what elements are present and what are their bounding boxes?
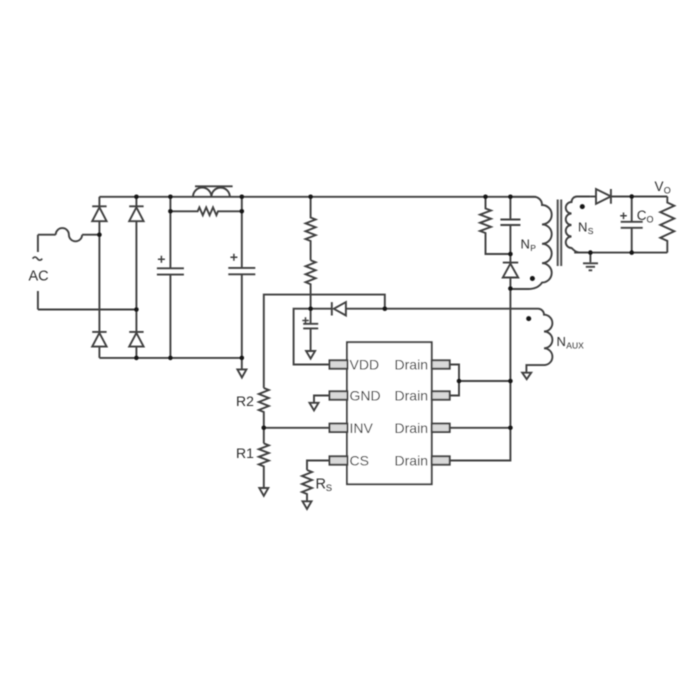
node INV divider [262,426,267,431]
node bottom bus junctions [134,356,139,361]
svg-text:V: V [655,179,664,194]
pin VDD box [330,360,348,368]
node top bus junctions [134,195,139,200]
ground (Naux arrow) [522,373,531,380]
IC U1 body [347,342,432,484]
svg-text:O: O [664,186,671,196]
wire drain vertical [450,289,511,461]
svg-text:O: O [647,215,654,225]
wire bridge right column [135,197,137,358]
node secondary ground [588,250,593,255]
capacitor C-vdd [303,309,318,351]
output diode [596,189,611,204]
wire Ns top to output diode [590,196,596,198]
label AC [33,257,43,260]
svg-text:VDD: VDD [350,357,380,373]
wire CS to Rs [307,461,330,471]
svg-text:Drain: Drain [395,453,428,469]
node drain join [457,379,462,384]
plus C2 [230,254,237,261]
svg-text:R: R [316,477,326,493]
wire VDD pin loop [294,309,330,365]
wire diode anode to node A [346,308,385,310]
svg-text:N: N [521,237,530,252]
pin Drain4 box [432,456,450,464]
svg-text:N: N [557,334,566,349]
svg-text:CS: CS [350,453,369,469]
pin Drain3 box [432,424,450,432]
node phase dot Ns [580,204,585,209]
node damping resistor ends [168,209,173,214]
wire INV [264,427,330,429]
capacitor Co [621,197,643,253]
wire bridge left column [98,197,100,358]
node Np bottom [508,286,513,291]
wire node A up-left to R2 [264,295,385,388]
transformer aux winding Naux [526,309,552,373]
node fuse-bridge [97,232,102,237]
ground (bottom bus arrow) [237,358,246,378]
node Co bottom [629,250,634,255]
capacitor C2 [228,197,255,358]
resistor damping (parallel with L1) [170,207,241,215]
diode D2 [129,206,143,221]
transformer primary Np [510,197,551,289]
pin INV box [330,424,348,432]
resistor startup Rb [306,260,316,309]
svg-text:AC: AC [29,269,49,285]
ground (R1 arrow) [259,488,268,496]
wire GND pin to ground [314,396,330,403]
wire drain pins 1-2 join [450,365,459,396]
ground (C-vdd arrow) [306,351,315,359]
svg-text:Drain: Drain [395,388,428,404]
resistor Rs [302,470,312,501]
wire node A to aux winding [385,308,538,310]
transformer core [558,200,562,267]
plus Co [620,213,627,220]
svg-text:Drain: Drain [395,420,428,436]
wire join to drain vertical [459,380,510,382]
svg-text:S: S [326,483,332,494]
transformer secondary Ns [566,197,591,253]
diode D3 [92,332,106,347]
diode D-vdd [332,302,346,315]
svg-text:R1: R1 [236,445,254,461]
wire output top [611,196,667,198]
node A (diode anode / divider) [383,306,388,311]
wire AC bottom [38,309,136,311]
svg-text:C: C [637,208,647,223]
svg-text:GND: GND [350,388,381,404]
ground (GND pin arrow) [310,403,319,411]
node output diode cathode [629,194,634,199]
wire drain pin 3 [450,427,511,429]
snubber resistor [480,197,510,254]
svg-text:P: P [530,243,536,253]
pin CS box [330,456,348,464]
plus C1 [158,256,165,263]
svg-text:S: S [588,226,594,236]
ground (Rs arrow) [303,501,312,509]
diode D1 [92,206,106,221]
ground earth (secondary) [583,253,598,271]
resistor startup Ra [306,197,316,260]
clamp diode [503,254,518,289]
svg-text:N: N [578,220,587,235]
svg-text:AUX: AUX [566,341,584,351]
wire VDD node to diode [311,308,332,310]
snubber capacitor [500,197,520,254]
node phase dot Naux [526,316,531,321]
wire top bus [99,196,536,198]
load resistor [660,197,674,253]
node snubber bottom [508,252,513,257]
plus C-vdd [302,317,309,323]
capacitor C1 [157,197,184,358]
AC source [37,235,39,310]
pin GND box [330,391,348,399]
pin Drain1 box [432,360,450,368]
wire AC top [38,234,100,236]
node AC return [134,307,139,312]
fuse F1 [56,228,82,241]
diode D4 [129,332,143,347]
svg-text:R2: R2 [236,393,254,409]
inductor L1 [193,186,233,197]
svg-text:INV: INV [350,420,374,436]
resistor R2 [259,388,269,443]
pin Drain2 box [432,391,450,399]
wire bottom bus [99,357,241,359]
node phase dot Np [530,276,535,281]
svg-text:Drain: Drain [395,357,428,373]
node VDD [308,306,313,311]
resistor R1 [259,443,269,488]
wire output bottom [574,252,667,254]
